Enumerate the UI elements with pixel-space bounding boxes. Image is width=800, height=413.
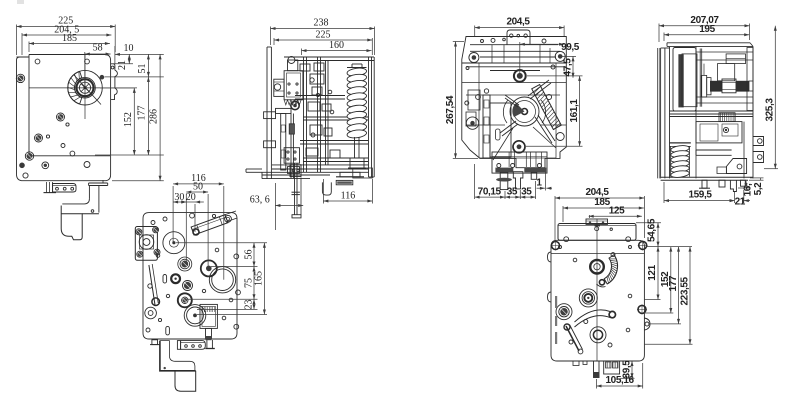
main closing spring [347, 67, 367, 77]
left flange upper [264, 112, 276, 119]
terminal block rear [492, 152, 547, 190]
main shaft hole [590, 260, 604, 274]
lower hanging plate [175, 371, 196, 391]
svg-text:35: 35 [507, 186, 518, 197]
svg-text:21: 21 [735, 197, 746, 208]
right flags [753, 137, 764, 163]
svg-text:223,55: 223,55 [679, 276, 690, 305]
cross platforms [295, 96, 368, 162]
right hanger flange [89, 180, 108, 186]
svg-text:177: 177 [668, 275, 679, 291]
side view top rail [284, 57, 374, 61]
spring lower rod [348, 137, 366, 168]
top mounting holes [23, 59, 90, 178]
front view main body outline [17, 55, 111, 181]
big gear rear [503, 97, 545, 126]
dim 75 [187, 267, 258, 300]
svg-text:165: 165 [254, 271, 265, 286]
dim 54,65 [636, 218, 661, 246]
j hook under frame [322, 182, 331, 195]
dim 286 [112, 54, 164, 180]
dim 35 b [520, 196, 535, 198]
svg-text:286: 286 [149, 109, 160, 124]
rear mid plate lines [462, 83, 566, 126]
dim 51 [147, 54, 149, 77]
hanger lower plate [61, 206, 99, 240]
dim 5,2 [749, 178, 764, 195]
slot ovals [163, 275, 169, 335]
dim 39,5 [620, 360, 635, 379]
bracket small left below body [44, 182, 57, 193]
svg-text:152: 152 [123, 112, 134, 127]
dim 20 [181, 192, 204, 204]
svg-text:225: 225 [316, 29, 331, 40]
front view inner plate edge [29, 155, 110, 157]
dim 47,5 [527, 56, 583, 77]
dim 225 view2 [274, 29, 372, 55]
shaft circle view5 [699, 49, 701, 107]
bottom view top plate [558, 224, 636, 242]
dim 121 [644, 247, 692, 300]
link bar [696, 150, 732, 155]
bottom small feet [573, 361, 587, 366]
dim 159,5 [664, 182, 735, 203]
dim 225 [17, 16, 116, 56]
svg-text:56: 56 [243, 249, 254, 259]
arc slot [604, 255, 617, 284]
dim 35 a [505, 196, 520, 198]
svg-text:204,5: 204,5 [506, 17, 530, 28]
small fittings on posts [300, 63, 340, 158]
dim 16 [738, 181, 753, 196]
ring wheel low [184, 305, 206, 327]
svg-text:5,2: 5,2 [753, 182, 764, 196]
pole view top plate [667, 43, 753, 47]
dim 185 [29, 33, 110, 52]
svg-text:125: 125 [609, 206, 625, 217]
hanger arm [62, 186, 99, 213]
dim 195 [664, 24, 749, 41]
back view main plate [143, 213, 237, 339]
small holes bottom view [559, 246, 632, 348]
dim 204,5 [22, 24, 111, 55]
step plate bold [160, 341, 196, 371]
svg-text:121: 121 [647, 264, 658, 280]
svg-text:58: 58 [93, 43, 103, 54]
gear comb [284, 100, 301, 105]
left edge ears [548, 252, 552, 302]
bottom bolt [594, 361, 600, 378]
dim 30 [173, 192, 195, 232]
dim 21 [113, 54, 133, 70]
side view right rails [369, 57, 375, 177]
right edge tab [644, 318, 650, 330]
svg-text:20: 20 [186, 192, 196, 203]
dim 56 [176, 243, 267, 267]
spring top cap [347, 64, 367, 68]
mid platform lines [670, 111, 754, 117]
hanging rod below [292, 163, 302, 218]
motor box [284, 71, 303, 100]
bottom rod [205, 340, 215, 349]
svg-text:185: 185 [62, 33, 77, 44]
svg-text:10: 10 [124, 43, 134, 54]
bold circle low [178, 293, 192, 307]
horizontal cylinder stack [701, 75, 753, 97]
big pulley circle [163, 232, 185, 254]
dim 125 view6 [589, 206, 642, 218]
svg-text:160: 160 [329, 40, 344, 51]
rear view top tab [507, 30, 530, 45]
svg-text:161,1: 161,1 [569, 99, 580, 123]
dim 105,16 [597, 363, 643, 389]
svg-text:1: 1 [536, 178, 542, 189]
svg-text:21: 21 [117, 60, 128, 70]
svg-text:177: 177 [137, 106, 148, 121]
gear bold ring [201, 260, 217, 276]
dim 1 [536, 172, 552, 191]
svg-text:51: 51 [137, 64, 148, 74]
dim 325,3 [764, 26, 778, 169]
rod box [290, 165, 301, 177]
upper right plate lines [696, 46, 753, 178]
small holes scattered [46, 123, 90, 168]
hatched mount left low [556, 304, 572, 320]
dim 177 view6 [650, 247, 681, 324]
svg-text:195: 195 [699, 24, 715, 35]
dim 177 [95, 77, 164, 155]
right side tab [100, 64, 118, 100]
svg-text:267,54: 267,54 [445, 95, 456, 124]
comb strip [719, 113, 735, 122]
step plate [276, 108, 292, 113]
bold ring mid [579, 289, 597, 307]
bottom terminal blocks [604, 361, 620, 374]
dim 63,6 [250, 183, 304, 230]
dim 165 [197, 243, 267, 315]
gear link bars [493, 80, 556, 160]
dim 58 [85, 43, 111, 87]
small holes view3 [146, 213, 240, 332]
center posts [304, 57, 329, 172]
roller [291, 101, 299, 109]
damper cylinder [191, 215, 228, 235]
diagonal hatched bar [532, 85, 562, 130]
center section line [596, 220, 598, 362]
lower shaft circle [513, 141, 525, 153]
spiral cam crescent [68, 72, 82, 104]
rear view top plate lines [462, 45, 567, 71]
counter box [200, 304, 217, 328]
dim 10 [115, 43, 164, 64]
upper right boxes [704, 54, 746, 81]
rear small circles top [466, 38, 555, 99]
inner tall plate [658, 48, 697, 179]
side view left rails [267, 47, 271, 179]
svg-text:63, 6: 63, 6 [250, 195, 270, 206]
svg-text:70,15: 70,15 [478, 186, 502, 197]
rear view outer plate [462, 37, 567, 168]
svg-text:54,65: 54,65 [646, 218, 657, 242]
diagonal lever low left [564, 324, 583, 354]
bottom rails [262, 165, 369, 179]
counter bolt [206, 328, 212, 340]
opening spring cap [670, 143, 691, 147]
lower box [284, 148, 299, 164]
mount holes bottom view [551, 240, 648, 314]
opening spring [670, 145, 689, 153]
gear hatched small [178, 257, 192, 271]
svg-text:116: 116 [341, 191, 356, 202]
left flange lower [264, 141, 276, 148]
dim 207,07 [659, 15, 750, 42]
bottom foot small [150, 340, 160, 345]
plate seam line [551, 253, 644, 255]
z bracket [717, 159, 747, 174]
small circle near slot [611, 253, 615, 257]
back view left block [135, 227, 160, 261]
mid links [490, 95, 555, 157]
bottom view top tab [586, 219, 608, 224]
pole view right edge [752, 46, 754, 178]
dim 70,15 bottom [475, 164, 536, 199]
svg-text:16,: 16, [742, 183, 753, 196]
dim 161,1 [526, 76, 583, 146]
svg-text:23: 23 [243, 300, 254, 310]
left post column [483, 89, 490, 158]
dim 50 [186, 182, 208, 269]
svg-text:325,3: 325,3 [765, 98, 776, 122]
dim 152 view6 [644, 247, 673, 313]
dim 238 [271, 18, 375, 56]
bracket plate with 3 holes [53, 184, 76, 193]
dark ring pin [171, 274, 180, 283]
svg-text:238: 238 [314, 18, 329, 29]
dim 116 view2 [323, 179, 372, 204]
bottom left foot [246, 169, 262, 172]
dim 204,5 view4 [475, 17, 564, 36]
svg-text:47,5: 47,5 [563, 58, 574, 77]
damper end pivots [193, 211, 237, 235]
dim 116 view3 [173, 173, 224, 280]
bottom feet [288, 167, 365, 177]
big lower circle [590, 327, 606, 343]
slot end pivot [597, 280, 606, 287]
dim 204,5 view6 [555, 187, 644, 242]
svg-text:105,16: 105,16 [606, 375, 635, 386]
rear inner plate [479, 63, 556, 158]
dim 99,5 [520, 42, 580, 73]
small detail circles view2 [310, 78, 334, 137]
svg-text:99,5: 99,5 [561, 42, 580, 53]
spring sides [671, 146, 690, 176]
dim 23 [197, 299, 258, 309]
bottom view main plate [551, 240, 644, 361]
hatched gear mid [183, 281, 193, 291]
dim 21 view5 [730, 190, 751, 208]
bottom terminals view5 [699, 180, 745, 191]
tall narrow plate [281, 114, 286, 171]
svg-text:159,5: 159,5 [688, 190, 712, 201]
dim 267,54 [445, 42, 478, 159]
dark pulley rear [514, 70, 526, 82]
corner screws [16, 74, 64, 160]
bottom bracket 3 holes [177, 341, 205, 350]
left small cluster [466, 90, 480, 126]
pole view left rails [661, 47, 670, 178]
dim 185 view6 [563, 197, 644, 222]
mid rod and block [289, 114, 294, 179]
foot pad under frame [336, 168, 372, 185]
lower blocks view5 [696, 122, 742, 143]
banana lever [575, 310, 616, 327]
small dark pins [19, 162, 48, 169]
top cylinder [288, 57, 298, 71]
svg-text:35: 35 [521, 186, 532, 197]
left lever arm [145, 264, 160, 319]
left hatched bracket [274, 79, 284, 96]
main shaft mechanism [29, 55, 134, 120]
rear corner mounts [465, 51, 565, 140]
dim 152 [100, 88, 137, 155]
tiny label marks [555, 296, 557, 344]
pole view bottom edge [661, 177, 753, 180]
big ring gear [209, 267, 235, 293]
dim 223,55 [644, 247, 693, 345]
dim 160 [302, 40, 372, 55]
faint page artifact top left [17, 0, 24, 4]
